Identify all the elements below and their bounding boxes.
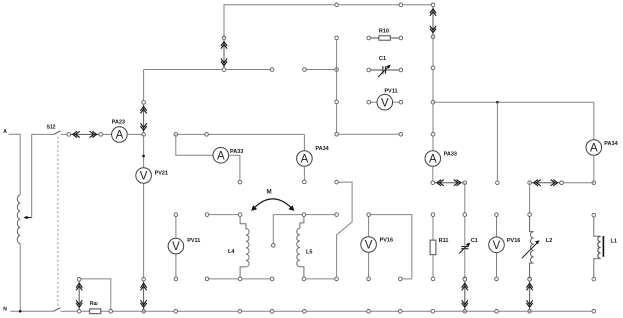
switch S12 bottom blade <box>54 308 61 312</box>
ammeter PA33 right <box>425 151 441 167</box>
voltmeter PV16 first column wires <box>368 216 370 277</box>
M arc right arrowhead <box>288 205 294 211</box>
plug connector X8 L2 feed <box>528 180 564 186</box>
voltmeter PV11 mid <box>168 238 184 254</box>
terminal x433 y67.9 <box>431 66 435 70</box>
wire C1 column lower <box>464 250 466 277</box>
svg-text:PV11: PV11 <box>384 88 397 94</box>
svg-text:L5: L5 <box>306 249 312 255</box>
terminal rail x304 <box>303 310 307 314</box>
wire PV16 top L-branch <box>369 215 412 279</box>
svg-text:R10: R10 <box>379 29 389 35</box>
terminal rail x400 <box>399 310 403 314</box>
svg-text:PA34: PA34 <box>315 146 329 152</box>
capacitor C1 top body <box>371 66 400 74</box>
plug connector X9 L2 to rail <box>527 278 533 314</box>
svg-text:A: A <box>301 154 309 166</box>
svg-text:Rш: Rш <box>90 301 98 307</box>
terminal R11 top <box>431 213 435 217</box>
ammeter PA23 <box>112 127 128 143</box>
wire x433 into ammeter PA33 right <box>432 150 434 152</box>
capacitor C1 bottom variable arrow <box>459 246 467 254</box>
autotransformer tap arrow <box>26 217 31 219</box>
resistor R10 body <box>371 36 400 40</box>
svg-text:A: A <box>3 129 7 135</box>
wire y102 corner down to ammeter PA34 right <box>593 102 595 140</box>
neutral rail left segment <box>10 310 53 312</box>
ammeter PA34 <box>297 151 313 167</box>
ammeter PA34 right <box>586 140 602 156</box>
svg-text:V: V <box>493 240 501 252</box>
svg-text:L4: L4 <box>228 249 235 255</box>
tap arrowhead <box>23 216 27 219</box>
terminal PV11 mid top <box>174 213 178 217</box>
terminal L1 bottom <box>592 277 596 281</box>
wire x433 down to ammeter PA33 <box>432 37 434 151</box>
terminal R11 bottom <box>431 277 435 281</box>
terminal L4 top left <box>205 213 209 217</box>
voltmeter PV11 top right terminal <box>399 100 403 104</box>
terminal x497 branch end <box>496 181 500 185</box>
wire top feeder corner down from y69 row <box>143 70 145 103</box>
capacitor C1 top variable arrow <box>378 67 388 77</box>
svg-text:PV21: PV21 <box>155 171 168 177</box>
terminal bus top x336 <box>335 36 339 40</box>
wire from A to autotransformer top <box>9 134 21 195</box>
voltmeter PV16 first <box>361 237 377 253</box>
terminal x433 y134.3 <box>431 133 435 137</box>
terminal PV16 second top <box>495 213 499 217</box>
svg-text:PA33: PA33 <box>230 149 243 155</box>
inductor L4 top wire <box>207 214 240 216</box>
wire switch S12 to terminal <box>61 133 68 135</box>
resistor R11 body <box>430 216 436 277</box>
plug connector X5 vertical at x433 top <box>430 3 436 39</box>
terminal rail x432 <box>431 310 435 314</box>
inductor L1 body <box>598 236 601 258</box>
wire voltmeter PV21 down to rail connector <box>143 183 145 279</box>
plug connector X3 to N rail <box>141 278 147 314</box>
wire connector to ammeter PA23 <box>103 133 112 135</box>
terminal y134 x206 <box>205 133 209 137</box>
terminal end of y69 row <box>270 68 274 72</box>
terminal bus mid x336 <box>335 100 339 104</box>
wire zigzag bypass x336 <box>337 182 353 277</box>
plug connector X4 vertical at x224 <box>221 36 227 72</box>
terminal L5 branch <box>272 244 276 248</box>
terminal y182 x561 <box>560 181 564 185</box>
terminal L4 bottom left <box>205 277 209 281</box>
wire L2 column upper <box>529 183 531 213</box>
voltmeter PV11 top <box>377 94 393 110</box>
svg-text:M: M <box>267 188 272 195</box>
svg-text:PA33: PA33 <box>444 152 457 158</box>
wire into ammeter PA34 <box>303 134 305 150</box>
inductor L5 body <box>297 216 304 277</box>
wire ammeter PA33 output <box>229 155 240 180</box>
terminal L5 top right <box>335 213 339 217</box>
voltmeter PV11 mid column wires <box>175 216 177 277</box>
inductor L4 body <box>240 216 249 277</box>
shunt bypass wire <box>79 279 111 310</box>
terminal bus corner x336 <box>335 133 339 137</box>
wire x224 up and top bus to x433 <box>224 5 433 38</box>
inductor L5 bottom wire <box>304 278 337 280</box>
inductor L2 variable arrow <box>522 243 538 259</box>
terminal C1 column bottom <box>463 277 467 281</box>
terminal PV16 second bottom <box>495 277 499 281</box>
capacitor C1 bottom plates <box>461 247 468 249</box>
wire top distribution row y69 <box>144 69 273 71</box>
wire PA34 right output <box>593 155 595 182</box>
switch S12 gang dashed link <box>57 137 59 307</box>
wire junction down to voltmeter PV21 <box>143 134 145 167</box>
terminal PA34 output <box>303 180 307 184</box>
inductor L5 top wire <box>273 214 336 216</box>
terminal rail x175 <box>174 310 178 314</box>
terminal y134 x175 <box>174 133 178 137</box>
neutral rail main segment <box>61 310 594 312</box>
terminal L1 top <box>592 213 596 217</box>
svg-text:PA34: PA34 <box>604 141 618 147</box>
terminal rail end x593 <box>592 310 596 314</box>
resistor R10 left terminal <box>367 36 371 40</box>
svg-text:S12: S12 <box>47 125 56 131</box>
wire ammeter PA34 output <box>303 166 305 180</box>
voltmeter PV11 top left terminal <box>367 100 371 104</box>
plug connector X10 shunt <box>76 278 82 314</box>
wire y182 to connector <box>562 182 594 184</box>
resistor R10 right terminal <box>399 36 403 40</box>
inductor L2 body <box>530 216 534 277</box>
wire L5 branch down <box>272 215 274 244</box>
plug connector X6 PA33 output <box>431 180 467 186</box>
svg-text:PV16: PV16 <box>507 238 520 244</box>
terminal zigzag top <box>335 180 339 184</box>
terminal PA34 output x593 <box>592 181 596 185</box>
svg-text:A: A <box>590 143 598 155</box>
junction dot N rail <box>19 310 22 313</box>
terminal L2 bottom <box>528 277 532 281</box>
terminal on top bus at x336 <box>335 3 339 7</box>
capacitor C1 top left terminal <box>367 68 371 72</box>
terminal rail x239 <box>238 310 242 314</box>
M arc left arrowhead <box>251 205 257 211</box>
terminal rail x496 <box>495 310 499 314</box>
plug connector X1 on phase row <box>67 131 103 137</box>
inductor L2 arrowhead <box>535 240 540 244</box>
svg-text:L2: L2 <box>546 238 552 244</box>
terminal L-branch end <box>399 277 403 281</box>
inductor L1 bottom lead <box>594 259 601 278</box>
svg-text:V: V <box>172 241 180 253</box>
wire arm into ammeter PA33 <box>176 134 213 155</box>
voltmeter PV16 second <box>489 237 505 253</box>
terminal L5 top <box>302 213 306 217</box>
measurement bus vertical x336 <box>337 38 401 134</box>
terminal y69 at x304 <box>303 68 307 72</box>
terminal rail x272 <box>270 310 274 314</box>
terminal L2 top <box>528 213 532 217</box>
voltmeter PV21 <box>136 168 152 184</box>
svg-text:V: V <box>140 171 148 183</box>
wire x497 branch down <box>496 102 498 181</box>
svg-text:V: V <box>365 240 373 252</box>
terminal Rsh right x110 <box>109 310 113 314</box>
capacitor C1 top arrowhead <box>386 65 390 69</box>
terminal PV11 mid bottom <box>174 277 178 281</box>
svg-text:V: V <box>381 97 389 109</box>
terminal PA33 output <box>238 180 242 184</box>
terminal rail x368 <box>367 310 371 314</box>
wire PA33 right output <box>432 166 434 182</box>
plug connector X2 vertical above PA23 junction <box>141 101 147 137</box>
inductor L1 core bar <box>602 236 604 257</box>
terminal on top bus at x400 <box>399 3 403 7</box>
junction dot y102 x497 <box>496 101 499 104</box>
inductor L4 bottom wire <box>207 278 272 280</box>
terminal bus arm end x400 <box>399 133 403 137</box>
terminal L4 bottom <box>238 277 242 281</box>
wire ammeter PA23 to node junction <box>127 133 143 135</box>
svg-text:A: A <box>116 130 124 142</box>
terminal PV16 first bottom <box>367 277 371 281</box>
svg-text:A: A <box>429 154 437 166</box>
terminal L5 bottom <box>302 277 306 281</box>
terminal C1 column top <box>463 213 467 217</box>
switch S12 blade <box>54 131 61 135</box>
voltmeter PV11 top stubs <box>371 101 400 103</box>
wire y69 segment to reactor bus <box>304 69 336 71</box>
terminal L4 top right <box>238 213 242 217</box>
svg-text:R11: R11 <box>439 238 449 244</box>
svg-text:PV11: PV11 <box>187 238 200 244</box>
inductor L1 leads <box>594 217 601 236</box>
wire autotransformer bottom to N rail <box>19 244 21 312</box>
svg-text:C1: C1 <box>471 238 478 244</box>
wire tap to switch S12 <box>32 134 54 217</box>
ammeter PA33 <box>213 148 229 164</box>
wire measuring row y134 <box>176 133 305 135</box>
terminal L4 bottom right <box>270 277 274 281</box>
terminal x433 y102.2 <box>431 100 435 104</box>
plug connector X7 C1 to rail <box>462 278 468 314</box>
svg-text:C1: C1 <box>379 56 386 62</box>
junction dot below PA23 row <box>142 155 145 158</box>
autotransformer T1 winding <box>17 195 20 244</box>
svg-text:PA23: PA23 <box>112 119 125 125</box>
capacitor C1 top right terminal <box>399 68 403 72</box>
mutual inductance M arc <box>254 199 292 208</box>
svg-text:A: A <box>217 150 225 162</box>
voltmeter PV16 second column wires <box>496 216 498 277</box>
wire feeder row y102 <box>433 101 594 103</box>
wire connector to capacitor C1 column <box>464 183 466 213</box>
svg-text:PV16: PV16 <box>380 237 393 243</box>
terminal y69 at x336 on bus <box>335 68 339 72</box>
resistor Rsh body <box>90 309 101 314</box>
terminal L5 bottom right <box>335 277 339 281</box>
terminal PV16 first top <box>367 213 371 217</box>
svg-text:N: N <box>3 306 7 312</box>
svg-text:L1: L1 <box>611 238 617 244</box>
capacitor C1 bottom arrowhead <box>466 243 470 247</box>
wire C1 column upper <box>464 216 466 245</box>
